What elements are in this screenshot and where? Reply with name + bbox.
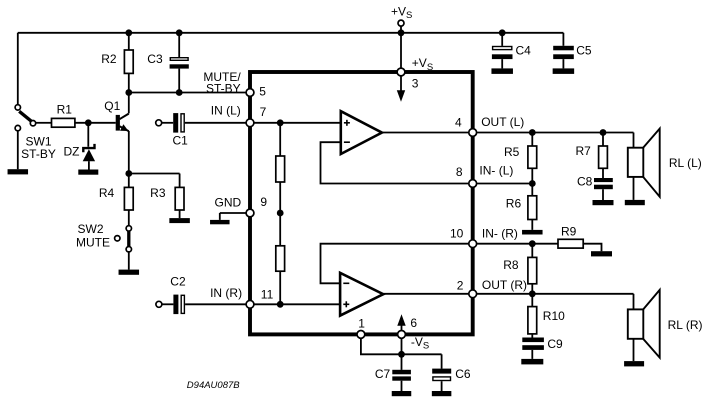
svg-text:ST-BY: ST-BY <box>21 147 56 161</box>
svg-text:C1: C1 <box>173 133 189 147</box>
svg-text:D94AU087B: D94AU087B <box>187 380 240 391</box>
svg-text:C8: C8 <box>577 175 593 189</box>
svg-text:DZ: DZ <box>64 144 80 158</box>
svg-text:SW2: SW2 <box>78 222 104 236</box>
svg-text:C9: C9 <box>547 337 563 351</box>
svg-text:IN- (R): IN- (R) <box>482 226 518 240</box>
svg-text:R1: R1 <box>57 103 73 117</box>
svg-text:C7: C7 <box>375 367 391 381</box>
svg-text:3: 3 <box>412 76 419 90</box>
svg-text:IN (L): IN (L) <box>211 103 241 117</box>
svg-text:10: 10 <box>450 227 464 241</box>
svg-text:C5: C5 <box>576 44 592 58</box>
svg-text:R2: R2 <box>101 52 117 66</box>
svg-text:R10: R10 <box>543 309 565 323</box>
svg-text:OUT (R): OUT (R) <box>482 278 527 292</box>
svg-text:R9: R9 <box>561 225 577 239</box>
svg-text:C6: C6 <box>455 367 471 381</box>
svg-text:5: 5 <box>259 85 266 99</box>
svg-text:R6: R6 <box>506 196 522 210</box>
svg-text:4: 4 <box>455 115 462 129</box>
svg-text:OUT (L): OUT (L) <box>481 115 524 129</box>
svg-text:R4: R4 <box>99 186 115 200</box>
svg-text:8: 8 <box>456 165 463 179</box>
svg-text:C4: C4 <box>516 44 532 58</box>
svg-text:R7: R7 <box>576 144 592 158</box>
svg-text:IN (R): IN (R) <box>210 286 242 300</box>
svg-text:C3: C3 <box>147 52 163 66</box>
svg-text:C2: C2 <box>170 275 186 289</box>
svg-text:Q1: Q1 <box>104 99 120 113</box>
svg-text:11: 11 <box>261 287 274 301</box>
svg-text:RL (R): RL (R) <box>668 318 703 332</box>
svg-text:R8: R8 <box>503 258 519 272</box>
svg-text:ST-BY: ST-BY <box>206 82 241 96</box>
svg-text:RL (L): RL (L) <box>669 156 702 170</box>
svg-text:R3: R3 <box>150 186 166 200</box>
svg-text:1: 1 <box>358 317 365 331</box>
svg-text:MUTE: MUTE <box>76 236 110 250</box>
svg-text:9: 9 <box>260 195 267 209</box>
svg-text:7: 7 <box>260 105 267 119</box>
svg-text:IN- (L): IN- (L) <box>479 163 513 177</box>
svg-text:R5: R5 <box>504 145 520 159</box>
svg-text:GND: GND <box>215 196 242 210</box>
svg-text:2: 2 <box>457 278 464 292</box>
svg-text:6: 6 <box>410 316 417 330</box>
